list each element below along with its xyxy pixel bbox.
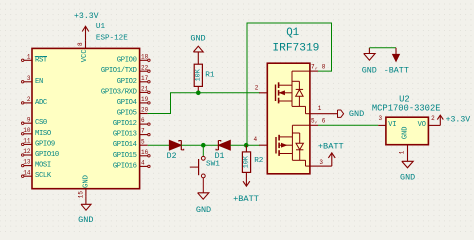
Q1 pin 4 stub <box>253 136 276 145</box>
svg-text:EN: EN <box>35 78 43 86</box>
U1 pin 11 GPIO9 <box>22 138 55 149</box>
svg-text:1: 1 <box>398 150 405 154</box>
svg-text:1: 1 <box>318 105 322 112</box>
junction at SW1 top <box>201 143 206 148</box>
U1 pin 18 GPIO0 <box>117 53 150 64</box>
svg-text:SW1: SW1 <box>206 161 220 169</box>
svg-text:GPIO9: GPIO9 <box>35 140 55 148</box>
svg-text:GND: GND <box>400 172 415 182</box>
svg-text:17: 17 <box>141 75 149 82</box>
U1 pin 22 GPIO1/TXD <box>101 64 150 75</box>
svg-text:+BATT: +BATT <box>318 142 344 152</box>
svg-text:CS0: CS0 <box>35 119 47 127</box>
svg-text:GND: GND <box>362 65 377 75</box>
wire Q1 pins5,6 to U2 VI <box>318 124 378 126</box>
svg-text:GPIO16: GPIO16 <box>113 162 137 170</box>
svg-text:3: 3 <box>27 75 31 82</box>
svg-text:8: 8 <box>77 42 84 46</box>
U1 pin 3 EN <box>22 75 43 86</box>
U1 pin 15 GND (bottom) <box>78 175 91 198</box>
svg-text:MISO: MISO <box>35 130 51 138</box>
Q1 lower P-MOSFET <box>276 125 310 166</box>
ground symbol above R1 <box>190 34 205 64</box>
svg-text:18: 18 <box>141 53 149 60</box>
svg-text:GPIO2: GPIO2 <box>117 78 137 86</box>
svg-text:20: 20 <box>141 107 149 114</box>
U2 pin 3 stub <box>378 115 386 125</box>
U1 pin 2 ADC <box>22 96 48 107</box>
U1 pin 5 GPIO14 <box>113 138 148 149</box>
svg-text:GPIO5: GPIO5 <box>117 110 137 118</box>
wire D2 to D1 <box>181 144 218 146</box>
svg-text:GND: GND <box>190 34 205 44</box>
svg-text:U1: U1 <box>96 23 106 31</box>
U1 pin 7 GPIO13 <box>113 128 150 139</box>
svg-text:10: 10 <box>23 127 31 134</box>
U1 pin 1 RST <box>22 53 48 64</box>
svg-text:GND: GND <box>349 109 364 119</box>
svg-text:2: 2 <box>27 96 31 103</box>
svg-text:GPIO15: GPIO15 <box>113 152 137 160</box>
U1 pin 13 MOSI <box>22 159 51 170</box>
svg-text:+3.3V: +3.3V <box>446 116 471 125</box>
U1 pin 20 GPIO5 <box>117 107 149 118</box>
svg-text:11: 11 <box>23 138 31 145</box>
svg-text:6: 6 <box>141 117 145 124</box>
svg-text:GND: GND <box>82 175 90 188</box>
svg-text:MCP1700-3302E: MCP1700-3302E <box>372 104 441 114</box>
diode D2 (Schottky) <box>167 140 184 161</box>
svg-text:D2: D2 <box>167 152 177 161</box>
U1 pin 9 CS0 <box>22 116 47 127</box>
svg-text:VO: VO <box>418 121 426 129</box>
junction at R2 top <box>244 143 249 148</box>
svg-text:GPIO4: GPIO4 <box>117 99 137 107</box>
svg-text:21: 21 <box>141 86 149 93</box>
svg-text:GND: GND <box>402 126 410 139</box>
U1 pin 10 MISO <box>22 127 51 138</box>
Q1 upper N-MOSFET <box>276 71 310 114</box>
ground symbol below U2 <box>400 161 415 182</box>
power +BATT at Q1 pin3 <box>318 142 344 167</box>
svg-text:2: 2 <box>431 115 435 122</box>
svg-text:VI: VI <box>388 121 396 129</box>
svg-text:GPIO13: GPIO13 <box>113 131 137 139</box>
U1 pin 4 GPIO16 <box>113 160 150 171</box>
IC U1 body <box>32 48 140 188</box>
Q1 pin 1 stub <box>310 105 322 114</box>
svg-text:16: 16 <box>141 149 149 156</box>
svg-text:9: 9 <box>27 116 31 123</box>
U1 pin 17 GPIO2 <box>117 75 150 86</box>
U1 pin 14 SCLK <box>22 169 52 180</box>
wire SW1 to ground <box>202 178 204 193</box>
svg-text:+BATT: +BATT <box>233 194 259 204</box>
svg-text:GPIO10: GPIO10 <box>35 151 59 159</box>
Q1 pins 5,6 stub <box>310 118 326 126</box>
wire loop Q1 pins7,8 to gate net <box>247 23 332 145</box>
U1 pin 6 GPIO12 <box>113 117 150 128</box>
svg-text:13: 13 <box>23 159 31 166</box>
power +3.3V at U1 <box>74 12 99 40</box>
svg-text:SCLK: SCLK <box>35 172 52 180</box>
ground symbol below SW1 <box>196 193 211 215</box>
svg-text:R1: R1 <box>205 71 215 79</box>
svg-text:GPIO12: GPIO12 <box>113 120 137 128</box>
svg-text:14: 14 <box>23 169 31 176</box>
svg-text:R2: R2 <box>254 157 264 165</box>
svg-text:GPIO0: GPIO0 <box>117 56 137 64</box>
resistor R1 <box>194 64 215 93</box>
svg-text:MOSI: MOSI <box>35 162 51 170</box>
svg-text:GPIO3/RXD: GPIO3/RXD <box>101 88 137 96</box>
svg-text:GPIO1/TXD: GPIO1/TXD <box>101 67 137 75</box>
svg-text:Q1: Q1 <box>286 27 299 39</box>
Q1 pin 3 stub <box>310 159 323 166</box>
wire D1 to R2/Q1 pin4 <box>230 144 260 146</box>
svg-text:7, 8: 7, 8 <box>311 64 326 71</box>
svg-text:IRF7319: IRF7319 <box>272 42 319 54</box>
svg-text:5, 6: 5, 6 <box>311 118 326 125</box>
ground symbol top right <box>362 48 377 76</box>
svg-text:ADC: ADC <box>35 99 48 107</box>
svg-text:4: 4 <box>253 136 257 143</box>
wire GPIO14 to D2 <box>148 144 170 146</box>
resistor R2 <box>242 145 263 172</box>
hierarchical label GND at Q1 pin1 <box>338 109 365 119</box>
ground symbol below U1 <box>78 197 93 225</box>
svg-text:10K: 10K <box>194 68 202 81</box>
diode D1 (Schottky) <box>215 140 231 161</box>
U2 pin 1 stub <box>398 145 407 162</box>
power -BATT symbol <box>384 48 409 76</box>
U1 pin 19 GPIO4 <box>117 96 150 107</box>
U1 pin 12 GPIO10 <box>22 148 59 159</box>
svg-text:VCC: VCC <box>81 49 89 63</box>
U1 pin 8 VCC (top) <box>77 40 89 62</box>
Q1 body <box>267 63 310 174</box>
svg-text:ESP-12E: ESP-12E <box>96 34 128 42</box>
svg-text:+3.3V: +3.3V <box>74 12 99 21</box>
svg-text:GND: GND <box>78 215 93 225</box>
svg-text:15: 15 <box>78 191 85 199</box>
svg-text:3: 3 <box>378 115 382 122</box>
svg-text:RST: RST <box>35 56 48 64</box>
svg-text:GPIO14: GPIO14 <box>113 141 137 149</box>
svg-text:12: 12 <box>23 148 31 155</box>
svg-text:10K: 10K <box>243 155 251 168</box>
svg-text:19: 19 <box>141 96 149 103</box>
svg-text:2: 2 <box>255 85 259 92</box>
switch SW1 push-button <box>190 145 220 178</box>
wire Q1 pin1 to GND label <box>318 113 338 115</box>
U1 pin 16 GPIO15 <box>113 149 150 160</box>
wire GND to -BATT <box>369 47 396 49</box>
svg-text:GND: GND <box>196 205 211 215</box>
svg-text:5: 5 <box>141 138 145 145</box>
svg-text:1: 1 <box>27 53 31 60</box>
wire GPIO5 to R1 and Q1 pin2 <box>148 93 260 114</box>
svg-text:-BATT: -BATT <box>384 65 409 75</box>
junction at R1 bottom <box>196 91 201 96</box>
Q1 pins 7,8 stub <box>310 64 326 72</box>
svg-text:7: 7 <box>141 128 145 135</box>
svg-text:4: 4 <box>141 160 145 167</box>
svg-text:3: 3 <box>319 159 323 166</box>
U2 pin 2 stub and +3.3V <box>428 115 470 125</box>
U1 pin 21 GPIO3/RXD <box>101 86 150 97</box>
power +BATT below R2 <box>233 172 259 204</box>
svg-text:22: 22 <box>141 64 149 71</box>
IC U2 body <box>386 117 429 145</box>
Q1 pin 2 stub <box>255 85 276 93</box>
